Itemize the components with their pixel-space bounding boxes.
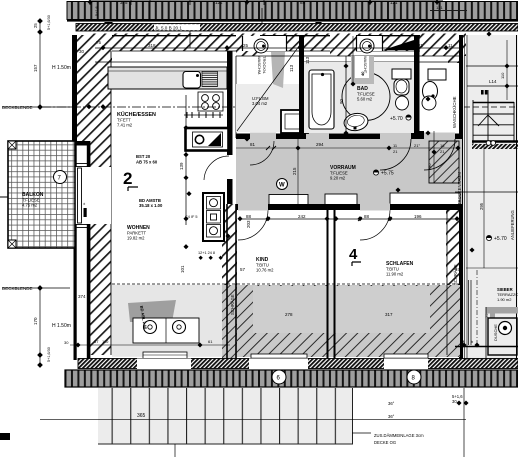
svg-text:57: 57 (455, 267, 461, 272)
svg-text:318: 318 (148, 43, 156, 48)
svg-text:L14: L14 (489, 79, 497, 84)
svg-text:121: 121 (436, 5, 443, 10)
svg-text:5+1,6/30: 5+1,6/30 (47, 347, 51, 362)
svg-text:215: 215 (292, 167, 297, 175)
svg-text:M: M (461, 339, 464, 344)
svg-text:21: 21 (393, 149, 398, 154)
svg-text:139: 139 (179, 162, 184, 170)
svg-text:196: 196 (414, 214, 422, 219)
svg-text:TROCKENRAUM: TROCKENRAUM (457, 172, 462, 205)
svg-text:36°: 36° (388, 414, 395, 419)
svg-text:25: 25 (484, 313, 489, 318)
svg-text:90: 90 (427, 163, 432, 168)
svg-text:19.82 m2: 19.82 m2 (127, 236, 145, 241)
svg-text:SCHRÄGE: SCHRÄGE (230, 294, 235, 315)
svg-text:11: 11 (448, 43, 453, 48)
svg-text:7.41 m2: 7.41 m2 (117, 123, 133, 128)
svg-text:+5.75: +5.75 (381, 171, 394, 177)
svg-text:30: 30 (79, 49, 85, 54)
svg-text:365: 365 (137, 413, 146, 419)
svg-text:121: 121 (390, 0, 398, 5)
svg-text:75: 75 (96, 40, 102, 45)
svg-text:21: 21 (418, 43, 424, 48)
svg-text:170: 170 (33, 317, 38, 325)
svg-text:+5.70: +5.70 (390, 116, 403, 122)
svg-text:2: 2 (123, 169, 132, 188)
svg-text:88: 88 (246, 214, 252, 219)
svg-text:DECKE OG: DECKE OG (374, 440, 396, 445)
svg-text:25: 25 (33, 23, 38, 28)
svg-text:203: 203 (246, 220, 251, 228)
svg-text:9.20 m2: 9.20 m2 (330, 176, 346, 181)
svg-text:1.90 m2: 1.90 m2 (497, 297, 512, 302)
svg-text:5.60 m2: 5.60 m2 (357, 97, 373, 102)
svg-text:25: 25 (243, 43, 249, 48)
svg-text:88: 88 (300, 0, 306, 5)
svg-text:113: 113 (289, 64, 294, 72)
svg-text:JL 5.0 B 20.1: JL 5.0 B 20.1 (155, 25, 182, 30)
svg-text:61: 61 (208, 339, 213, 344)
svg-text:WASCHM.: WASCHM. (257, 56, 262, 75)
svg-text:121: 121 (215, 0, 223, 5)
svg-text:4: 4 (349, 246, 358, 263)
svg-text:4.75 m2: 4.75 m2 (22, 203, 38, 208)
svg-text:295: 295 (479, 202, 484, 210)
svg-text:WASCHT.: WASCHT. (363, 56, 368, 74)
svg-text:3.04 m2: 3.04 m2 (252, 101, 268, 106)
svg-text:W: W (279, 183, 285, 189)
svg-text:16: 16 (440, 143, 445, 148)
svg-text:57: 57 (240, 267, 246, 272)
svg-text:H 1.50m: H 1.50m (52, 323, 71, 329)
svg-text:57: 57 (94, 339, 99, 344)
svg-text:5+1,6/30: 5+1,6/30 (47, 15, 51, 30)
svg-text:BST 20: BST 20 (136, 154, 151, 159)
svg-text:AB 75 x 60: AB 75 x 60 (136, 160, 158, 165)
svg-text:DECKBLENDE: DECKBLENDE (2, 105, 33, 110)
svg-text:TROCKN.: TROCKN. (262, 56, 267, 74)
svg-text:278: 278 (285, 312, 293, 317)
svg-text:110: 110 (500, 72, 505, 79)
svg-text:H 1.50m: H 1.50m (52, 65, 71, 71)
svg-text:81: 81 (250, 142, 256, 147)
svg-text:12+1 24 8: 12+1 24 8 (198, 251, 215, 255)
svg-text:21°: 21° (414, 143, 420, 148)
svg-text:10.76 m2: 10.76 m2 (256, 268, 274, 273)
svg-text:88: 88 (364, 214, 370, 219)
svg-text:DUSCHE: DUSCHE (493, 324, 498, 341)
svg-text:30: 30 (452, 399, 457, 404)
svg-text:242: 242 (298, 214, 306, 219)
svg-text:375: 375 (120, 0, 128, 5)
svg-text:WASCHKÜCHE: WASCHKÜCHE (452, 96, 457, 128)
svg-text:101: 101 (180, 265, 185, 273)
svg-text:294: 294 (316, 142, 324, 147)
svg-text:110: 110 (102, 339, 109, 344)
svg-text:317: 317 (385, 312, 393, 317)
svg-text:+5.70: +5.70 (494, 236, 507, 242)
svg-text:30: 30 (64, 340, 69, 345)
svg-text:35.18 x 1.00: 35.18 x 1.00 (139, 203, 163, 208)
svg-text:90: 90 (339, 98, 344, 104)
svg-text:40: 40 (360, 71, 365, 76)
svg-text:36°: 36° (388, 401, 395, 406)
svg-text:21: 21 (440, 149, 445, 154)
svg-text:11.90 m2: 11.90 m2 (386, 272, 404, 277)
svg-text:113: 113 (305, 56, 310, 64)
svg-text:157: 157 (33, 64, 38, 72)
svg-text:ANLIEFERUNG: ANLIEFERUNG (510, 210, 515, 240)
svg-text:374: 374 (78, 294, 86, 299)
svg-text:DECKBLENDE: DECKBLENDE (2, 286, 33, 291)
svg-text:5+1,6: 5+1,6 (95, 6, 99, 16)
svg-text:ZUS.DÄMMEINLAGE 3cm: ZUS.DÄMMEINLAGE 3cm (374, 433, 424, 438)
